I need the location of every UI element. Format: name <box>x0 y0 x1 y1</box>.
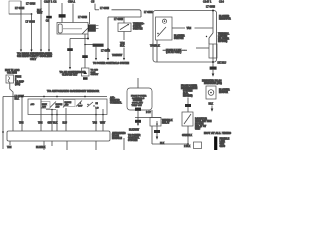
svg-text:RESISTOR: RESISTOR <box>219 19 231 21</box>
svg-text:BLK/WHT: BLK/WHT <box>129 129 140 131</box>
wire <box>48 3 50 51</box>
svg-text:WHT: WHT <box>100 123 106 125</box>
fuse box <box>6 75 14 83</box>
wire <box>61 3 63 23</box>
wire <box>151 126 153 144</box>
svg-text:LT GRN: LT GRN <box>100 7 109 10</box>
svg-text:LT GRN: LT GRN <box>26 20 35 24</box>
A/C heater control switch box <box>28 99 107 115</box>
fuse box <box>209 44 217 58</box>
wire <box>156 121 158 130</box>
svg-text:C5: C5 <box>91 0 95 4</box>
svg-text:MOTOR): MOTOR) <box>218 41 228 43</box>
connector box top-left <box>9 1 21 14</box>
wire <box>151 110 153 118</box>
svg-text:C14: C14 <box>219 0 224 4</box>
svg-text:BREAKER (J/B): BREAKER (J/B) <box>204 82 222 85</box>
component dark body <box>88 25 95 32</box>
svg-text:WHT: WHT <box>37 12 43 15</box>
svg-text:(J/B): (J/B) <box>15 84 20 86</box>
arrow <box>20 50 22 53</box>
svg-text:MODULE: MODULE <box>112 138 122 140</box>
wire <box>2 97 4 150</box>
A/C relay bus box <box>7 131 110 141</box>
fan relay box <box>182 112 193 126</box>
connector on wire <box>154 130 160 133</box>
wire <box>95 47 97 59</box>
rounded source box <box>127 88 152 110</box>
switch contact <box>87 102 93 107</box>
svg-text:GRY BLK: GRY BLK <box>48 123 58 125</box>
svg-text:TO POWER CONTROLS SYSTEM: TO POWER CONTROLS SYSTEM <box>93 62 129 65</box>
svg-text:(ON A/C UNIT): (ON A/C UNIT) <box>166 51 182 54</box>
bus wire <box>3 96 107 98</box>
svg-text:CONTROL: CONTROL <box>110 102 122 105</box>
svg-text:TAN: TAN <box>93 122 98 125</box>
thermostatic switch box <box>118 23 131 32</box>
svg-text:OR RUN: OR RUN <box>7 71 17 74</box>
wire <box>137 111 139 124</box>
svg-text:LT GRN: LT GRN <box>144 11 153 14</box>
wire <box>123 48 125 59</box>
svg-text:LT GRN: LT GRN <box>78 16 87 19</box>
thermal limiter <box>212 11 214 34</box>
node junction <box>187 143 189 145</box>
wire <box>21 97 23 132</box>
svg-text:MAX: MAX <box>42 103 47 106</box>
wire <box>172 27 185 29</box>
svg-text:HI: HI <box>96 103 99 105</box>
node junction <box>107 48 109 50</box>
connector on wire <box>135 108 141 111</box>
switch position MAX A/C <box>41 102 50 109</box>
wire <box>89 12 91 24</box>
svg-text:TEMP SW: TEMP SW <box>132 105 143 107</box>
wire <box>85 44 93 46</box>
svg-text:OFF: OFF <box>78 106 83 108</box>
svg-text:BLU/BLK: BLU/BLK <box>36 147 46 149</box>
blower motor box <box>206 86 216 99</box>
connector on wire <box>46 16 52 19</box>
svg-text:A/C: A/C <box>56 105 60 108</box>
svg-text:AUTOMATIC: AUTOMATIC <box>112 132 126 135</box>
fusible link symbol <box>214 137 217 151</box>
svg-text:C5A 1: C5A 1 <box>68 0 76 4</box>
svg-text:BLK: BLK <box>120 45 125 48</box>
wire <box>187 98 189 113</box>
svg-text:UNIT: UNIT <box>195 128 201 130</box>
svg-text:A/C: A/C <box>42 105 46 108</box>
wire <box>187 126 189 144</box>
module box (cruise servo) <box>57 23 88 35</box>
svg-text:A/C: A/C <box>31 103 35 106</box>
svg-text:TAN: TAN <box>19 122 24 125</box>
arrow <box>69 67 71 70</box>
wire <box>69 39 71 68</box>
wire <box>196 47 209 49</box>
svg-text:ENGINE): ENGINE) <box>183 95 193 97</box>
svg-text:LT GRN: LT GRN <box>114 18 123 21</box>
connector blob <box>83 77 88 80</box>
svg-text:DK BLU: DK BLU <box>218 61 227 64</box>
svg-text:MOTOR: MOTOR <box>219 91 228 94</box>
wire <box>123 32 125 41</box>
big heater-A/C box <box>153 11 217 63</box>
blower switch box <box>156 17 173 40</box>
switch contact <box>50 102 56 108</box>
arrow <box>212 70 214 74</box>
svg-text:HOT AT ALL TIMES: HOT AT ALL TIMES <box>204 132 231 135</box>
value label GRY <box>82 55 88 58</box>
wire <box>107 17 109 59</box>
small box B1 <box>150 118 161 127</box>
svg-text:LT GRN: LT GRN <box>26 2 35 6</box>
svg-text:SWITCH: SWITCH <box>174 37 184 40</box>
svg-text:TAN: TAN <box>7 146 12 149</box>
stubs below bus box <box>9 141 11 145</box>
node junction <box>87 38 89 40</box>
svg-text:BLK: BLK <box>209 102 214 105</box>
svg-text:RELAY: RELAY <box>162 121 170 124</box>
switch contact <box>63 102 68 108</box>
svg-text:SWITCH: SWITCH <box>133 28 143 31</box>
wire <box>9 13 32 15</box>
wire <box>156 40 158 62</box>
value label PPL <box>67 48 73 51</box>
diode box <box>82 68 90 76</box>
svg-text:SYSTEM: SYSTEM <box>128 140 138 142</box>
svg-text:LT GRN: LT GRN <box>206 5 215 8</box>
svg-text:C147 1: C147 1 <box>203 0 212 4</box>
wire <box>108 16 141 18</box>
wire <box>152 143 188 145</box>
wire <box>20 1 22 51</box>
svg-text:BLU: BLU <box>63 123 68 125</box>
svg-text:2 BLK: 2 BLK <box>184 146 191 148</box>
wire <box>70 38 88 40</box>
small box <box>194 142 202 149</box>
svg-text:TAN: TAN <box>38 122 43 125</box>
wire <box>10 83 13 131</box>
wire <box>31 14 33 51</box>
svg-text:TO AUTOMATIC DAY/NIGHT MIRROR: TO AUTOMATIC DAY/NIGHT MIRROR <box>47 90 99 93</box>
switch contact <box>76 101 82 107</box>
connector BLK/WHT <box>93 44 104 47</box>
connector on wire <box>59 14 66 17</box>
wire <box>212 58 214 67</box>
stub wires below switch box <box>40 99 42 131</box>
svg-text:TAN/WHT: TAN/WHT <box>112 54 123 57</box>
arrow <box>156 133 158 137</box>
connector on wire <box>210 67 217 70</box>
svg-text:CLUTCH CKT: CLUTCH CKT <box>62 74 78 77</box>
node junction <box>212 61 214 63</box>
wire top horizontal <box>94 4 96 10</box>
switch position NORM A/C <box>64 100 76 107</box>
svg-text:BLK: BLK <box>15 98 20 101</box>
svg-text:BLK: BLK <box>160 143 165 145</box>
svg-text:A/C: A/C <box>65 103 69 106</box>
svg-text:LT GRN: LT GRN <box>101 49 110 52</box>
svg-text:CHART: CHART <box>91 73 99 76</box>
svg-text:TAN/BLK: TAN/BLK <box>150 45 160 48</box>
svg-text:LT GRN: LT GRN <box>15 7 24 10</box>
svg-text:GRN/BLK: GRN/BLK <box>182 135 193 137</box>
svg-text:2 C7: 2 C7 <box>146 112 152 114</box>
wire <box>84 34 86 68</box>
wire <box>123 138 125 150</box>
node junction <box>31 13 33 15</box>
svg-text:ONLY: ONLY <box>30 58 37 61</box>
svg-text:TAN: TAN <box>187 27 192 30</box>
svg-text:C227 1 C2: C227 1 C2 <box>44 0 57 4</box>
ground arrow <box>211 106 213 110</box>
connector on wire <box>185 104 191 107</box>
svg-text:C100: C100 <box>220 146 226 148</box>
wiper bar <box>46 109 56 111</box>
wire <box>40 0 42 51</box>
